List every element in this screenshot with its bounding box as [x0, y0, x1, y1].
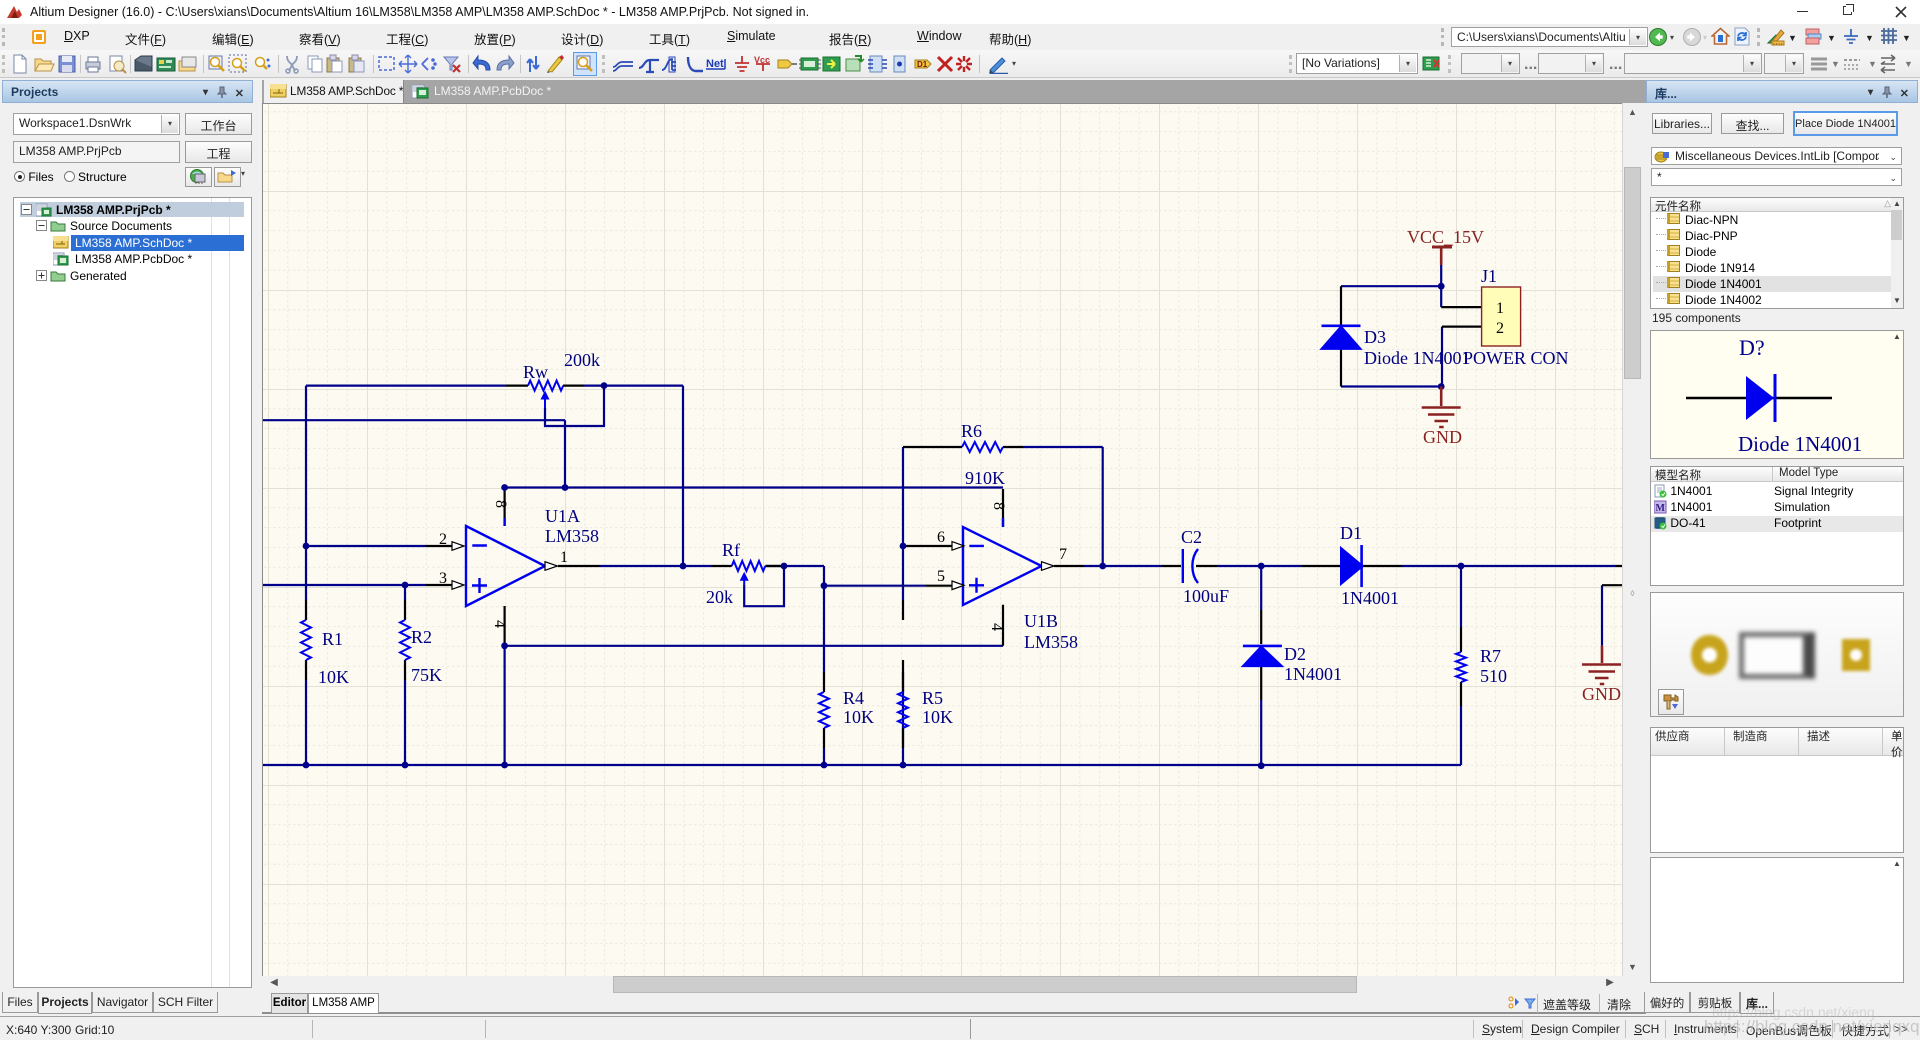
svg-text:Diode 1N4001: Diode 1N4001: [1364, 348, 1471, 368]
svg-text:1N4001: 1N4001: [1284, 664, 1342, 684]
svg-text:8: 8: [990, 502, 1007, 510]
svg-text:D2: D2: [1284, 644, 1306, 664]
svg-text:D3: D3: [1364, 327, 1386, 347]
svg-text:4: 4: [988, 623, 1005, 631]
svg-text:D1: D1: [1340, 523, 1362, 543]
svg-text:1: 1: [1496, 300, 1504, 317]
svg-text:4: 4: [491, 620, 508, 628]
svg-text:M: M: [1656, 503, 1666, 514]
svg-text:7: 7: [1059, 546, 1067, 563]
svg-text:R7: R7: [1480, 646, 1501, 666]
svg-text:10K: 10K: [843, 707, 874, 727]
svg-text:R2: R2: [411, 627, 432, 647]
svg-text:POWER CON: POWER CON: [1463, 348, 1569, 368]
svg-text:20k: 20k: [706, 587, 733, 607]
svg-text:U1A: U1A: [545, 506, 580, 526]
svg-text:GND: GND: [1423, 427, 1462, 447]
svg-text:U1B: U1B: [1024, 611, 1058, 631]
svg-text:10K: 10K: [922, 707, 953, 727]
svg-text:R6: R6: [961, 421, 982, 441]
svg-text:R4: R4: [843, 688, 864, 708]
svg-text:LM358: LM358: [545, 526, 599, 546]
svg-text:200k: 200k: [564, 350, 600, 370]
svg-text:910K: 910K: [965, 468, 1005, 488]
svg-text:Rw: Rw: [523, 362, 548, 382]
svg-text:C2: C2: [1181, 527, 1202, 547]
svg-text:5: 5: [937, 568, 945, 585]
svg-text:Rf: Rf: [722, 540, 740, 560]
svg-text:R1: R1: [322, 629, 343, 649]
svg-text:100uF: 100uF: [1183, 586, 1229, 606]
svg-text:1N4001: 1N4001: [1341, 588, 1399, 608]
svg-text:510: 510: [1480, 666, 1507, 686]
svg-text:J1: J1: [1481, 266, 1497, 286]
svg-text:10K: 10K: [318, 667, 349, 687]
svg-text:Net: Net: [706, 58, 724, 70]
svg-text:D1: D1: [917, 60, 928, 69]
svg-text:75K: 75K: [411, 665, 442, 685]
svg-text:R5: R5: [922, 688, 943, 708]
svg-text:8: 8: [492, 500, 509, 508]
svg-text:VCC_15V: VCC_15V: [1407, 227, 1484, 247]
svg-text:LM358: LM358: [1024, 632, 1078, 652]
svg-text:1: 1: [560, 549, 568, 566]
svg-text:2: 2: [1496, 320, 1504, 337]
svg-text:3: 3: [439, 570, 447, 587]
svg-text:2: 2: [439, 531, 447, 548]
svg-text:6: 6: [937, 529, 945, 546]
svg-text:GND: GND: [1582, 684, 1621, 704]
